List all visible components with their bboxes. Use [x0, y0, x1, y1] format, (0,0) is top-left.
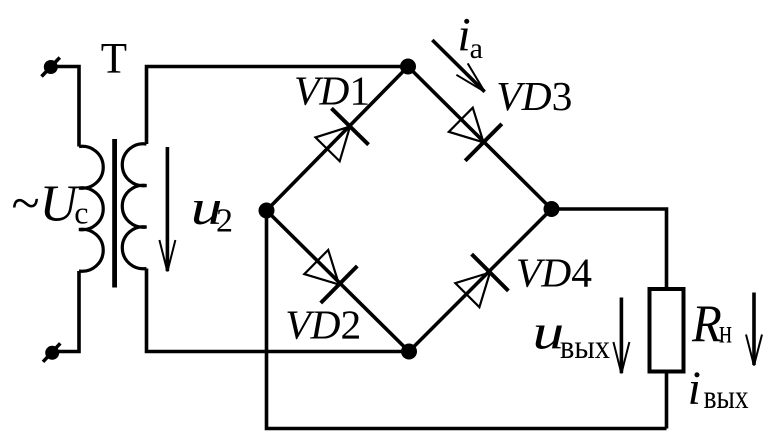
terminal bottom-left: [43, 343, 60, 362]
wire output plus (right node to resistor top): [552, 209, 667, 289]
wire secondary top: [147, 67, 409, 145]
svg-text:VD4: VD4: [516, 250, 592, 296]
wire resistor bottom: [665, 372, 669, 429]
node right: [544, 201, 560, 217]
wire secondary bottom: [147, 269, 410, 352]
svg-text:а: а: [470, 32, 483, 65]
svg-text:R: R: [691, 295, 722, 353]
transformer core: [112, 139, 117, 288]
wire bridge edge VD2 (left node to bottom node): [267, 211, 410, 352]
svg-text:н: н: [719, 314, 732, 351]
svg-text:c: c: [74, 195, 88, 231]
diode VD3: [442, 101, 501, 160]
wire primary top: [50, 67, 79, 147]
svg-text:~U: ~U: [12, 176, 81, 233]
label i_out: [688, 362, 749, 416]
resistor Rн: [650, 289, 684, 372]
arrow ia: [432, 40, 484, 92]
label Rн: [691, 295, 732, 353]
label ia: [457, 9, 483, 65]
wire bridge edge VD1 (left node to top node): [267, 67, 409, 211]
svg-text:VD1: VD1: [294, 68, 370, 114]
diode VD4: [449, 254, 508, 313]
svg-text:VD2: VD2: [285, 302, 361, 348]
node left: [259, 203, 275, 219]
wire output minus (left node down and bottom rail): [267, 211, 667, 429]
wire bridge edge VD4 (bottom node to right node): [409, 209, 552, 352]
svg-text:T: T: [101, 36, 127, 83]
label u2: [191, 180, 233, 239]
terminal top-left: [42, 58, 60, 77]
diode VD1: [309, 108, 369, 167]
label ~Uc: [12, 176, 89, 233]
svg-text:VD3: VD3: [496, 73, 572, 119]
arrow u2: [166, 147, 170, 271]
svg-text:i: i: [688, 362, 701, 415]
node top: [400, 59, 416, 75]
label u_out: [533, 305, 610, 366]
svg-text:вых: вых: [560, 329, 610, 366]
svg-text:вых: вых: [704, 379, 749, 416]
primary winding: [79, 146, 103, 271]
diode VD2: [298, 244, 357, 303]
node bottom: [401, 344, 417, 360]
wire bridge edge VD3 (top node to right node): [408, 67, 552, 210]
arrow i_out: [752, 293, 756, 366]
secondary winding: [122, 144, 146, 269]
svg-text:2: 2: [216, 203, 233, 240]
arrow u_out: [620, 298, 624, 374]
wire primary bottom: [52, 271, 80, 352]
